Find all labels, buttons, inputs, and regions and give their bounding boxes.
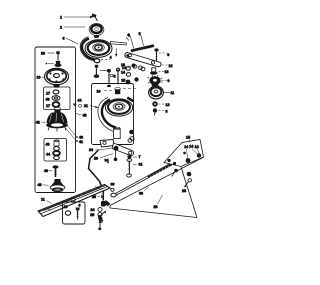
svg-text:40: 40 [44,169,48,173]
belt segment [82,39,95,60]
svg-text:10: 10 [97,89,101,93]
svg-text:4: 4 [127,33,129,37]
blade bolt box [63,202,86,224]
nut 14 below arm [132,64,136,68]
large pulley 3 [85,40,112,58]
svg-text:28: 28 [154,205,158,209]
inner box B [44,139,67,162]
spacer tube [114,129,121,139]
svg-text:43: 43 [46,143,50,147]
bolt 8 [153,108,157,112]
nut right of box [129,130,134,135]
spring [132,46,153,51]
belt keeper bar [111,42,127,46]
leaders 40 41 [64,124,76,141]
svg-text:44: 44 [46,152,50,156]
svg-text:25: 25 [90,213,94,217]
svg-text:8: 8 [166,109,168,113]
svg-text:14: 14 [195,145,199,149]
svg-text:14: 14 [121,70,125,74]
bolt 1 [92,14,97,18]
idler spring and arm assembly [122,32,173,70]
svg-text:2: 2 [60,26,62,30]
small pulley 2 [89,24,104,36]
blade 11 [38,185,110,217]
svg-text:18: 18 [165,70,169,74]
deck belt [102,100,116,128]
spacer [54,141,59,146]
svg-text:31: 31 [139,163,143,167]
lift rod assembly [110,158,182,210]
center pulley 21 [105,99,132,116]
washer [54,147,60,151]
svg-text:12: 12 [169,64,173,68]
arm pivot nut [114,146,119,151]
long rod [116,160,177,193]
washer near arm [141,67,145,71]
bolt 5 [95,65,98,68]
vertex bracket [104,200,111,206]
box outline [92,84,134,145]
bolt C [116,68,120,72]
left spindle box [35,47,83,193]
washer stack [98,208,102,212]
top engine pulley assembly [60,14,130,79]
small bolt at vertex [101,212,106,216]
bolt 9 [154,48,158,51]
svg-text:9: 9 [168,79,170,83]
down arrow [115,49,117,55]
rod end bracket bolt [110,183,114,186]
svg-text:27: 27 [99,220,103,224]
washer 4 [94,59,100,63]
svg-text:44: 44 [78,99,82,103]
label 3 leader [126,37,129,41]
svg-text:21: 21 [84,104,88,108]
svg-text:11: 11 [171,91,175,95]
svg-text:43: 43 [46,97,50,101]
bearing [53,151,60,156]
svg-text:19: 19 [37,76,41,80]
svg-text:14: 14 [189,144,193,148]
long bolt 7 [127,156,132,159]
idler arm lower [112,143,134,155]
svg-text:6: 6 [79,203,81,207]
deck wedge outline [98,158,203,224]
washer 13 [152,101,157,106]
bolts below plate [187,172,192,177]
idler arm lug plate [100,140,115,148]
svg-text:42: 42 [36,120,40,124]
washer [54,156,60,160]
rod eyelet [111,193,116,197]
pulley 19 [45,68,69,84]
svg-text:20: 20 [41,52,45,56]
rod nut [172,160,177,164]
svg-text:34: 34 [105,158,109,162]
pulley 2 leader [64,26,85,28]
bolt 1 leader [64,16,90,18]
ribbed idler 9 [148,75,170,86]
svg-text:7: 7 [139,155,141,159]
idler arm 12 [125,53,161,67]
svg-text:13: 13 [166,103,170,107]
svg-text:14: 14 [184,145,188,149]
svg-text:41: 41 [79,140,83,144]
belt arrow 6 [66,38,78,44]
svg-text:17: 17 [46,104,50,108]
flat idler 11 [149,86,175,99]
svg-text:28: 28 [182,189,186,193]
labels 44 45 between boxes [73,99,87,118]
svg-text:11: 11 [41,197,45,201]
washer 43 [52,96,60,101]
svg-text:45: 45 [83,113,87,117]
svg-text:30: 30 [139,192,143,196]
bushing 18 [152,68,156,73]
brake rod [89,150,106,230]
svg-text:6: 6 [63,37,65,41]
svg-text:24: 24 [91,208,95,212]
svg-text:14: 14 [122,66,126,70]
bolt B [107,69,111,73]
svg-text:4: 4 [110,56,112,60]
small circle mark [111,74,114,77]
bushing 8 [46,63,48,65]
svg-text:15: 15 [121,78,125,82]
svg-text:19: 19 [64,205,68,209]
svg-text:15: 15 [186,136,190,140]
inner box A [44,87,71,110]
svg-text:46: 46 [38,183,42,187]
lower idler arm and bolt [89,139,143,177]
leader 4 [130,36,134,48]
svg-text:5: 5 [114,74,116,78]
svg-text:1: 1 [60,15,62,19]
right idler stack [141,67,174,115]
bearing 17 [53,102,60,107]
washer above bolt 7 [128,139,132,143]
svg-text:5: 5 [139,32,141,36]
svg-text:24: 24 [89,148,93,152]
cap 16 [115,89,120,95]
box outline [35,47,76,193]
svg-text:29: 29 [94,157,98,161]
svg-text:17: 17 [46,91,50,95]
washer 17 [53,90,59,94]
label 12 [162,64,168,66]
label 34 [107,162,109,164]
center spindle box [84,49,142,145]
belt guide tab [127,97,134,103]
svg-text:9: 9 [167,53,169,57]
height bracket plate [164,136,204,193]
leader 5 [141,35,144,46]
